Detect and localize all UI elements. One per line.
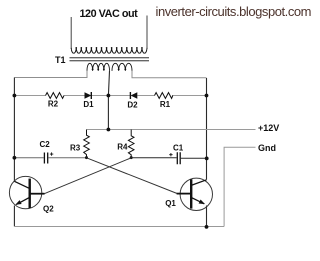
capacitor C1 [177,152,180,164]
node row1 right [205,94,209,98]
wire primary left lead [14,71,87,78]
svg-text:C1: C1 [173,143,184,152]
svg-text:T1: T1 [55,55,66,65]
wire center tap [108,71,109,130]
svg-text:Q1: Q1 [165,199,176,208]
transistor Q1 [180,178,212,210]
wire right rail lower [206,206,208,227]
wire secondary right lead [146,16,148,50]
wire C-row left [14,157,43,159]
svg-text:R2: R2 [48,100,59,109]
resistor R2 [46,93,65,99]
node row1 center tap [107,94,111,98]
node center tap to +12V [107,128,111,132]
resistor R4 [128,130,134,158]
transformer T1 primary winding left half [87,63,110,71]
wire left rail lower [13,206,15,227]
node row1 left [13,94,17,98]
wire right rail [206,78,208,180]
wire C1 to right rail [181,157,207,159]
svg-text:C2: C2 [40,140,51,149]
transformer T1 secondary winding [71,48,147,53]
wire Gnd lead [224,147,255,226]
wire +12V line [87,129,256,131]
wire C2 to R3 [48,157,86,159]
resistor R3 [84,130,90,158]
svg-text:inverter-circuits.blogspot.com: inverter-circuits.blogspot.com [156,4,312,19]
transistor Q2 [9,176,41,208]
node C1 right rail [205,157,209,161]
wire row1 segments [14,95,206,97]
svg-text:R4: R4 [117,143,128,152]
capacitor C2 [44,153,47,164]
node bottom emitter Q1 [205,225,209,229]
wire base cross Q2 (R4 bottom to Q2 base) [45,158,132,194]
svg-text:R3: R3 [70,143,81,152]
node R3 bottom [85,156,88,159]
resistor R1 [155,93,173,99]
svg-text:R1: R1 [160,100,171,109]
wire R4 to C1 [131,157,176,159]
node R4 bottom [130,156,133,159]
wire left rail [13,78,15,182]
svg-text:120 VAC out: 120 VAC out [79,8,138,20]
transformer T1 primary winding right half [112,63,132,71]
wire bottom [14,226,224,228]
wire base cross Q1 (R3 bottom to Q1 base) [87,158,177,194]
diode D2 [131,92,138,98]
svg-text:Q2: Q2 [43,204,54,213]
diode D1 [85,92,92,98]
wire secondary left lead [70,17,72,49]
wire primary right lead [132,71,207,78]
node C2 left rail [13,156,17,160]
svg-text:D1: D1 [83,100,94,109]
svg-text:+12V: +12V [258,123,279,133]
svg-text:Gnd: Gnd [258,143,276,153]
transformer T1 core [70,57,150,59]
svg-text:D2: D2 [127,101,138,110]
